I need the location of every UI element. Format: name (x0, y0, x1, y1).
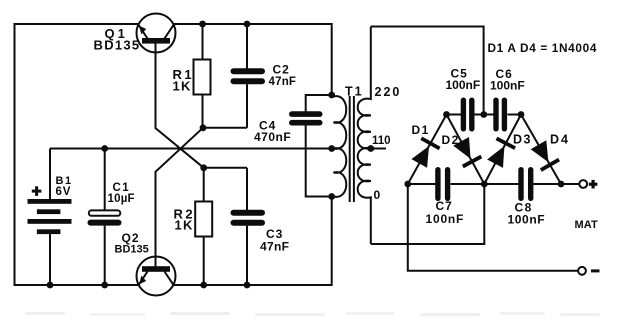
svg-text:220: 220 (375, 85, 402, 99)
wire secondary 0 terminal to bridge mid node (371, 184, 485, 244)
svg-text:470nF: 470nF (254, 130, 291, 144)
node junction 3 (200, 124, 207, 131)
node junction 5 (101, 145, 108, 152)
diode D3 (484, 115, 521, 185)
capacitor C2 (231, 24, 266, 128)
scan smudge (decorative) (25, 312, 600, 316)
capacitor C8 (518, 167, 533, 201)
wire 110 tap stub (371, 148, 386, 150)
svg-text:1K: 1K (175, 218, 194, 233)
svg-text:BD135: BD135 (115, 244, 149, 256)
transformer T1 primary winding (332, 95, 347, 197)
svg-text:D3: D3 (513, 133, 532, 147)
svg-text:0: 0 (374, 188, 381, 202)
node junction 13 (367, 145, 374, 152)
node junction 8 (328, 193, 335, 200)
svg-text:47nF: 47nF (260, 240, 289, 254)
diode D4 (521, 115, 561, 185)
node junction 19 (558, 181, 565, 188)
wire top rail right (Q1 collector to transformer primary top) (174, 24, 332, 95)
battery plus sign (32, 186, 42, 196)
svg-text:100nF: 100nF (490, 79, 525, 93)
wire N_mid to C8 (484, 183, 518, 185)
wire Q1 base lead (156, 43, 204, 168)
resistor R2 (195, 168, 212, 285)
node junction 12 (244, 282, 251, 289)
diode D1 (408, 115, 447, 185)
capacitor C3 (231, 168, 266, 285)
transistor Q2 (137, 257, 176, 296)
svg-text:D4: D4 (550, 133, 570, 147)
diode D2 (447, 115, 485, 185)
svg-text:C2: C2 (273, 63, 290, 77)
output terminal minus (578, 267, 586, 275)
svg-text:D2: D2 (442, 133, 460, 147)
wire bottom node row N_left to C7 (408, 183, 436, 185)
svg-text:110: 110 (372, 135, 391, 147)
wire C8 to N_right (534, 183, 562, 185)
svg-text:100nF: 100nF (446, 78, 481, 92)
svg-text:10µF: 10µF (108, 193, 135, 205)
svg-text:100nF: 100nF (426, 212, 465, 226)
output terminal plus (561, 180, 587, 188)
node junction 17 (404, 181, 411, 188)
svg-text:47nF: 47nF (269, 76, 297, 88)
wire top rail left (Q1 emitter to left border) (15, 24, 139, 285)
wire secondary 220 terminal to bridge top (371, 27, 484, 115)
node junction 14 (443, 111, 450, 118)
svg-text:MAT: MAT (575, 219, 598, 231)
node junction 7 (328, 92, 335, 99)
resistor R1 (194, 24, 211, 128)
capacitor C6 (493, 98, 507, 132)
wire +6V rail (battery + to transformer center tap) (50, 148, 332, 150)
node junction 15 (480, 111, 487, 118)
wire bottom rail right (Q2 collector to transformer primary bottom) (174, 197, 332, 286)
node junction 16 (518, 111, 525, 118)
battery B1 (28, 149, 72, 286)
capacitor C7 (435, 167, 450, 201)
svg-text:1K: 1K (173, 79, 192, 94)
node junction 10 (101, 282, 108, 289)
capacitor C1 (88, 149, 122, 286)
wire C7 to N_mid (451, 183, 485, 185)
capacitor C4 (289, 95, 332, 197)
node junction 2 (244, 21, 251, 28)
svg-text:C7: C7 (436, 199, 453, 213)
node junction 1 (199, 21, 206, 28)
wire C5 to C6 junction row (475, 114, 495, 116)
svg-text:BD135: BD135 (94, 38, 141, 53)
node junction 9 (47, 282, 54, 289)
wire Q2 base lead (156, 128, 204, 267)
transformer T1 secondary winding (358, 27, 371, 245)
svg-text:6V: 6V (56, 186, 72, 198)
svg-text:T1: T1 (345, 85, 364, 99)
svg-text:D1 A D4 = 1N4004: D1 A D4 = 1N4004 (488, 41, 598, 55)
svg-text:D1: D1 (412, 123, 430, 137)
wire C6 to P2 (508, 114, 522, 116)
transistor Q1 (137, 14, 176, 53)
minus sign output (591, 269, 600, 272)
transformer T1 core (350, 96, 354, 202)
wire bridge top node row (P1 to C5) (447, 114, 462, 116)
wire N_left down to minus line (408, 184, 578, 271)
wire R2/C3 top junction to Q1 base net (204, 167, 247, 169)
plus sign output (589, 180, 598, 189)
capacitor C5 (461, 98, 475, 132)
node junction 4 (200, 164, 207, 171)
node junction 6 (328, 145, 335, 152)
svg-text:100nF: 100nF (508, 213, 546, 227)
node junction 18 (481, 181, 488, 188)
node junction 11 (200, 282, 207, 289)
wire R1/C2 bottom junction to Q2 base net (203, 127, 247, 129)
